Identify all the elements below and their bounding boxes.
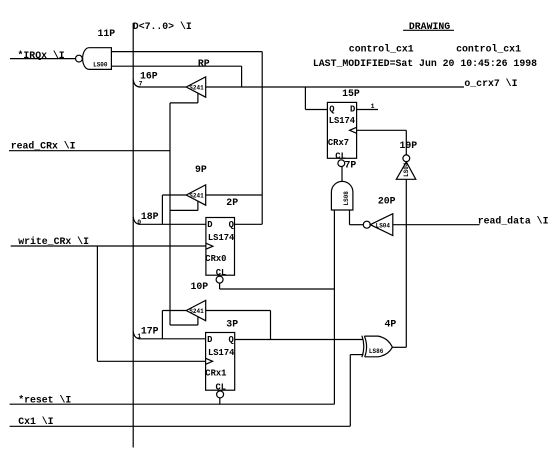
svg-text:19P: 19P: [400, 140, 418, 151]
svg-text:1: 1: [137, 333, 141, 340]
svg-text:3P: 3P: [226, 318, 238, 329]
svg-text:write_CRx \I: write_CRx \I: [18, 236, 89, 247]
svg-text:Q: Q: [329, 104, 335, 114]
svg-text:LS174: LS174: [208, 233, 235, 243]
svg-text:16P: 16P: [140, 70, 158, 81]
svg-text:LS04: LS04: [376, 223, 391, 230]
svg-text:LS04: LS04: [403, 162, 410, 177]
svg-text:Q: Q: [229, 220, 235, 230]
svg-text:read_data \I: read_data \I: [478, 215, 549, 226]
svg-text:15P: 15P: [342, 88, 360, 99]
svg-text:CL: CL: [335, 151, 346, 161]
svg-text:D: D: [207, 220, 212, 230]
svg-text:read_CRx \I: read_CRx \I: [11, 141, 76, 152]
svg-text:11P: 11P: [98, 28, 116, 39]
svg-text:LS86: LS86: [369, 348, 384, 355]
svg-text:LS174: LS174: [329, 116, 356, 126]
svg-text:RP: RP: [198, 58, 210, 69]
svg-text:S241: S241: [189, 192, 204, 199]
svg-text:*IRQx \I: *IRQx \I: [18, 50, 65, 61]
svg-text:DRAWING: DRAWING: [409, 21, 450, 32]
svg-text:7P: 7P: [345, 159, 357, 170]
svg-text:S241: S241: [189, 84, 204, 91]
svg-text:10P: 10P: [191, 281, 209, 292]
svg-text:LS08: LS08: [343, 191, 350, 206]
svg-text:CL: CL: [216, 382, 227, 392]
svg-text:LAST_MODIFIED=Sat Jun 20 10:45: LAST_MODIFIED=Sat Jun 20 10:45:26 1998: [313, 58, 537, 69]
svg-text:20P: 20P: [378, 195, 396, 206]
svg-text:Q: Q: [229, 335, 235, 345]
svg-text:CL: CL: [216, 268, 227, 278]
svg-text:7: 7: [139, 81, 143, 88]
svg-text:D<7..0> \I: D<7..0> \I: [133, 21, 192, 32]
svg-text:D: D: [350, 104, 355, 114]
svg-text:Cx1 \I: Cx1 \I: [18, 416, 53, 427]
svg-text:CRx7: CRx7: [328, 138, 349, 148]
svg-text:*reset \I: *reset \I: [18, 395, 71, 406]
svg-text:D: D: [207, 335, 212, 345]
svg-text:LS00: LS00: [93, 62, 108, 69]
svg-text:CRx0: CRx0: [205, 254, 226, 264]
svg-text:17P: 17P: [141, 325, 159, 336]
svg-text:2P: 2P: [226, 197, 238, 208]
svg-text:LS174: LS174: [208, 348, 235, 358]
svg-text:S241: S241: [189, 308, 204, 315]
svg-text:control_cx1: control_cx1: [456, 43, 521, 54]
svg-text:4P: 4P: [385, 318, 397, 329]
svg-text:o_crx7 \I: o_crx7 \I: [464, 78, 517, 89]
svg-text:1: 1: [371, 103, 375, 110]
svg-text:0: 0: [137, 219, 141, 226]
svg-text:CRx1: CRx1: [205, 368, 226, 378]
svg-text:18P: 18P: [141, 211, 159, 222]
svg-text:9P: 9P: [195, 164, 207, 175]
svg-text:control_cx1: control_cx1: [349, 43, 414, 54]
